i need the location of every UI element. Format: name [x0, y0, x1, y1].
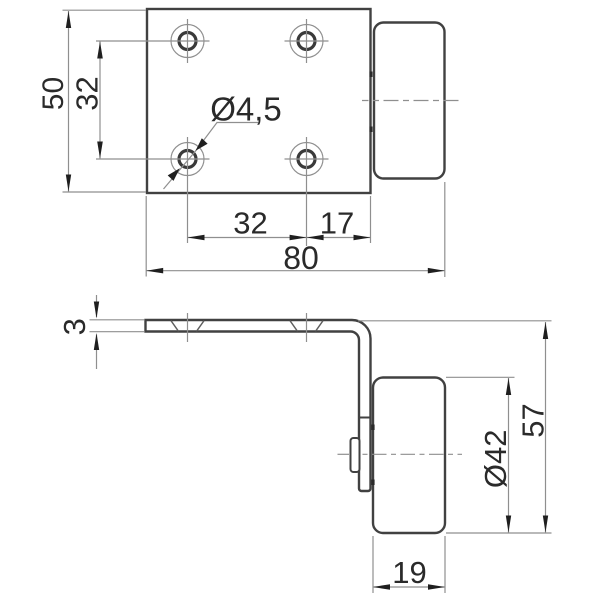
svg-text:32: 32: [233, 206, 267, 241]
svg-text:57: 57: [515, 403, 550, 437]
svg-text:32: 32: [69, 76, 104, 110]
svg-text:Ø42: Ø42: [478, 429, 513, 488]
svg-text:3: 3: [57, 318, 92, 335]
svg-text:17: 17: [320, 206, 354, 241]
svg-text:50: 50: [37, 77, 70, 110]
svg-text:19: 19: [392, 555, 426, 590]
svg-text:80: 80: [283, 240, 319, 276]
